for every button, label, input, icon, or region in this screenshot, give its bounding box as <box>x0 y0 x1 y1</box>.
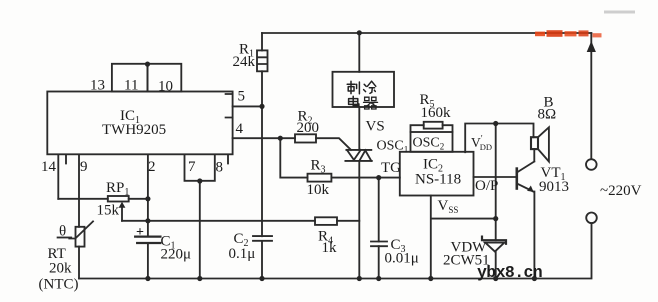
svg-text:11: 11 <box>124 78 138 94</box>
svg-text:ybx8.cn: ybx8.cn <box>477 263 542 282</box>
svg-text:0.01μ: 0.01μ <box>385 251 419 267</box>
svg-text:13: 13 <box>90 78 105 94</box>
svg-text:θ: θ <box>59 224 66 240</box>
svg-text:TWH9205: TWH9205 <box>102 122 166 138</box>
svg-text:8Ω: 8Ω <box>538 107 557 123</box>
svg-text:1k: 1k <box>322 240 338 256</box>
svg-text:10: 10 <box>158 79 173 95</box>
svg-text:160k: 160k <box>421 105 452 121</box>
svg-text:220μ: 220μ <box>161 247 192 263</box>
svg-text:20k: 20k <box>49 261 72 277</box>
svg-text:8: 8 <box>216 160 224 176</box>
svg-text:+: + <box>136 225 144 240</box>
svg-text:9013: 9013 <box>539 179 569 195</box>
svg-text:4: 4 <box>236 121 244 137</box>
svg-text:~220V: ~220V <box>600 183 642 199</box>
svg-text:NS-118: NS-118 <box>415 172 461 188</box>
svg-text:9: 9 <box>80 159 88 175</box>
svg-text:5: 5 <box>238 89 246 105</box>
svg-text:0.1μ: 0.1μ <box>229 246 256 262</box>
svg-text:V′DD: V′DD <box>471 134 492 153</box>
svg-text:O/P: O/P <box>475 178 498 194</box>
svg-text:14: 14 <box>41 159 57 175</box>
svg-text:OSC1: OSC1 <box>377 139 409 155</box>
svg-text:(NTC): (NTC) <box>39 277 79 293</box>
svg-text:2: 2 <box>148 159 156 175</box>
svg-text:RP1: RP1 <box>106 180 129 198</box>
svg-text:7: 7 <box>188 159 196 175</box>
svg-text:OSC2: OSC2 <box>413 136 445 152</box>
svg-text:R3: R3 <box>311 158 326 176</box>
svg-text:VS: VS <box>366 119 385 135</box>
svg-text:24k: 24k <box>233 54 256 70</box>
svg-text:VSS: VSS <box>438 198 459 215</box>
svg-text:TG: TG <box>381 160 401 176</box>
svg-text:10k: 10k <box>307 182 330 198</box>
svg-text:15k: 15k <box>97 203 120 219</box>
svg-text:200: 200 <box>297 120 320 136</box>
